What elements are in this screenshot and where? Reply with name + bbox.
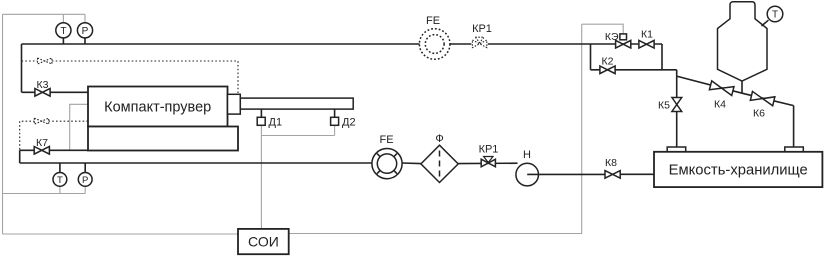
svg-text:Т: Т	[60, 26, 66, 37]
svg-text:Р: Р	[82, 175, 88, 186]
valve K7	[34, 147, 49, 155]
compact prover lower section	[88, 127, 238, 151]
svg-text:К4: К4	[714, 99, 726, 111]
svg-text:Компакт-прувер: Компакт-прувер	[104, 100, 211, 116]
valve K2	[600, 66, 615, 74]
wire: grey link to KE solenoid	[582, 24, 624, 34]
wire: grey drop from sensor T bottom	[59, 186, 61, 193]
wire: grey bus to SOI box	[3, 233, 239, 235]
valve K1	[639, 40, 654, 48]
wire: grey drop to sensor P top	[84, 14, 86, 22]
valve: dotted bypass valve top	[22, 61, 239, 93]
svg-text:К7: К7	[36, 137, 48, 149]
prover displacer bar	[240, 98, 353, 109]
svg-text:Д1: Д1	[269, 116, 283, 128]
sensor D1	[257, 117, 265, 125]
valve KE solenoid	[620, 34, 627, 40]
wire: grey drop sensor D2	[334, 125, 336, 135]
storage tank box	[654, 152, 822, 187]
svg-text:КР1: КР1	[479, 144, 499, 156]
storage tank left tab	[667, 147, 686, 152]
wire: grey drop sensor D1	[260, 125, 262, 135]
wire: left vertical to K3 line	[21, 44, 23, 92]
valve K6 (on diagonal)	[750, 91, 775, 105]
svg-text:К3: К3	[37, 79, 49, 91]
svg-text:Емкость-хранилище: Емкость-хранилище	[669, 162, 808, 178]
valve: dotted bypass valve bottom	[20, 121, 88, 150]
wire: K2 line	[591, 69, 677, 71]
sensor P1 top	[77, 23, 92, 38]
wire: grey bus SOI to right riser	[289, 24, 582, 233]
svg-text:СОИ: СОИ	[248, 234, 279, 250]
flowmeter FE bottom	[372, 149, 402, 179]
compact prover main box	[88, 87, 228, 127]
svg-text:Д2: Д2	[342, 116, 356, 128]
wire: top pipe	[22, 43, 663, 45]
wire: grey link prover to K7 line	[70, 104, 88, 150]
flowmeter FE top (dotted)	[419, 29, 450, 60]
storage tank right tab	[785, 147, 804, 152]
wire: K7 line	[20, 149, 88, 151]
svg-text:К5: К5	[658, 100, 670, 112]
svg-text:К6: К6	[753, 108, 765, 120]
wire: grey D1-D2 join to SOI	[261, 136, 334, 229]
sensor P2 bottom	[84, 163, 86, 172]
svg-text:КЭ: КЭ	[605, 31, 619, 43]
svg-text:Т: Т	[57, 175, 63, 186]
valve K5 (vertical)	[672, 98, 682, 112]
wire: diagonal to right riser	[742, 93, 794, 105]
valve KP1 bottom	[481, 159, 495, 167]
valve K4 (on diagonal)	[709, 81, 734, 96]
svg-text:К8: К8	[605, 157, 617, 169]
wire: K3 line to prover	[22, 91, 89, 93]
wire: grey drop to sensor T top	[62, 14, 64, 22]
wire: grey drop from sensor P bottom	[84, 186, 86, 193]
weighing hopper	[718, 2, 768, 81]
svg-text:Т: Т	[772, 10, 778, 21]
wire: right riser to tank tab	[793, 106, 795, 147]
svg-text:Ф: Ф	[435, 133, 443, 145]
svg-text:FE: FE	[426, 15, 440, 27]
svg-text:К2: К2	[602, 56, 614, 68]
wire: diagonal to hopper drain	[678, 76, 743, 93]
wire: grey bottom sensor feeder	[3, 193, 86, 195]
svg-text:Н: Н	[523, 149, 531, 161]
valve K8	[605, 171, 620, 179]
valve K3	[35, 89, 50, 97]
valve KP1 top (dotted)	[472, 40, 486, 48]
sensor T3 hopper	[762, 20, 769, 26]
wire: K8 to storage box	[621, 173, 654, 175]
node: D1 stem	[260, 109, 262, 117]
wire: grey signal riser left	[2, 14, 4, 234]
pump N	[516, 163, 539, 186]
sensor T1 top	[56, 23, 71, 38]
wire: K2 branch drop	[590, 44, 592, 70]
filter F	[421, 145, 458, 182]
wire: hopper drain stem	[741, 81, 743, 93]
wire: bottom pipe	[20, 162, 518, 165]
node: D2 stem	[334, 109, 336, 117]
wire: grey top feeder to T/P sensors	[3, 13, 86, 15]
svg-text:К1: К1	[641, 29, 653, 41]
valve KE	[616, 40, 631, 48]
svg-text:Р: Р	[82, 26, 89, 37]
sensor D2	[331, 117, 339, 125]
SOI box	[238, 229, 289, 254]
wire: vertical through K5 to tank tab	[676, 70, 678, 147]
wire: left vertical to bottom pipe	[19, 150, 21, 163]
compact prover right nozzle	[228, 94, 241, 114]
wire: K1 corner down	[661, 44, 663, 70]
svg-text:FE: FE	[379, 134, 393, 146]
sensor T2 bottom	[59, 163, 61, 172]
svg-text:КР1: КР1	[472, 23, 492, 35]
